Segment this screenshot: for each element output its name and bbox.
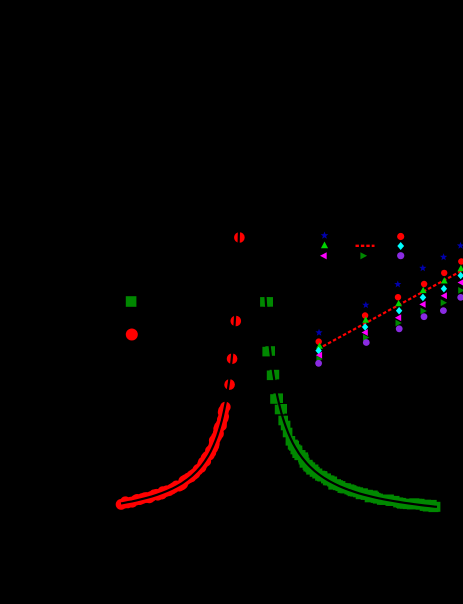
inset legend: dark green right-triangle: [360, 252, 367, 259]
inset legend: violet circle: [397, 252, 404, 259]
inset legend: cyan diamond: [397, 242, 404, 250]
black fit line through red branch: [121, 226, 239, 503]
red data curve: discrete upper markers: [220, 232, 245, 412]
inset data column 1: [315, 329, 322, 336]
inset red dashed trend line: [318, 270, 463, 349]
green data curve: discrete upper markers: [260, 297, 295, 446]
inset data column 3: [394, 281, 401, 288]
inset data column 5: [440, 253, 447, 260]
inset legend: lime up-triangle: [321, 242, 328, 249]
inset data column 4: [419, 264, 426, 271]
inset legend: blue star: [321, 232, 329, 239]
red data curve: dense band of circle markers: [116, 405, 229, 510]
green data curve: dense band of square markers: [288, 440, 441, 512]
inset data column 6: [457, 242, 463, 249]
black fit line through green branch: [265, 293, 437, 507]
legend marker: green square series: [126, 296, 137, 307]
inset legend: magenta left-triangle: [320, 252, 327, 259]
inset legend: red dashed line sample: [356, 245, 375, 247]
inset legend: red circle: [397, 233, 404, 240]
legend marker: red circle series: [126, 329, 138, 341]
inset data column 2: [362, 301, 369, 308]
